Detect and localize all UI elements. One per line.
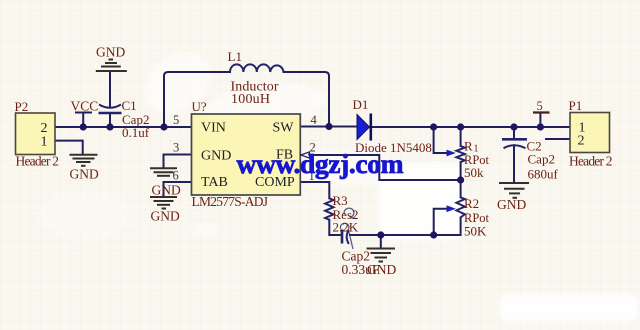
svg-text:1: 1 [41,134,48,149]
svg-text:680uf: 680uf [528,167,559,182]
capacitor C2 [502,139,527,148]
svg-text:P2: P2 [15,99,29,114]
wire P1 pin2 stub [546,138,570,140]
node junction VCC rail [80,123,87,130]
svg-text:L1: L1 [228,49,242,64]
inductor L1 [230,64,284,72]
FB input arrow [301,152,310,158]
wire R1 top stem [460,127,462,146]
svg-text:GND: GND [201,149,231,164]
ground (C2) [499,183,529,198]
svg-text:GND: GND [152,183,181,198]
connector P2 [16,113,56,155]
svg-text:GND: GND [497,197,526,212]
svg-text:Header 2: Header 2 [569,154,613,169]
svg-text:4: 4 [311,113,318,127]
svg-text:GND: GND [70,167,99,182]
wire C2 stem [513,127,515,138]
wire diode cathode to P1 pin1 [371,126,570,128]
wire R1 wiper [434,127,446,153]
wire SW pin to diode [300,126,356,128]
wire R3 bottom to cap 0.33 [329,220,341,235]
capacitor C1 [99,105,122,114]
svg-text:TAB: TAB [201,175,228,190]
svg-text:LM2577S-ADJ: LM2577S-ADJ [192,194,269,209]
capacitor Cap2 0.33uF (series) [342,230,349,245]
svg-text:Cap2: Cap2 [528,152,555,167]
wire COMP to R3 [300,182,329,198]
wire C1 bottom stem [109,114,111,127]
node junction R2 wiper tap [430,231,437,238]
ground (U pin3) [150,168,177,176]
wire inductor to SW riser [284,72,330,127]
svg-text:50k: 50k [464,165,484,180]
svg-text:R2: R2 [464,196,479,211]
wire VIN riser to inductor [164,72,230,127]
svg-text:VIN: VIN [201,121,226,136]
svg-text:0.1uf: 0.1uf [122,125,150,140]
svg-text:R3: R3 [333,193,348,208]
node junction R1 top [457,123,464,130]
node junction pin5 stub [537,123,544,130]
svg-text:50K: 50K [464,224,487,239]
node junction 0.33uF ground tap [377,231,384,238]
svg-text:Header 2: Header 2 [16,154,60,169]
svg-text:3: 3 [173,141,179,155]
ground (P2 pin1) [70,155,98,166]
svg-text:C1: C1 [122,98,137,113]
white erased-watermark patches [37,40,638,321]
svg-text:2: 2 [578,133,585,148]
node junction SW riser [325,123,332,130]
R2 wiper arrow [447,205,456,212]
svg-text:SW: SW [273,121,295,136]
svg-text:R: R [464,139,473,154]
connector P1 [570,113,610,153]
svg-text:GND: GND [151,209,180,224]
diode D1 [357,114,371,141]
pin5 marker bar at P1 [533,111,550,113]
svg-text:U?: U? [192,99,207,114]
svg-text:VCC: VCC [71,99,99,114]
wire main input rail [55,126,192,128]
overlap scribble near Res2 [340,208,356,249]
wire GND pin3 stub [164,155,192,168]
wire 0.33 gnd stem [380,235,382,248]
svg-text:6: 6 [173,169,179,183]
svg-text:5: 5 [173,113,179,127]
wire FB net [309,155,461,180]
svg-text:2.2K: 2.2K [333,220,359,235]
node junction R1 wiper tap [430,123,437,130]
wire cap 0.33 to R2 bottom [350,218,461,236]
ground (U pin6 TAB) [150,197,177,209]
wire R2 wiper [434,209,446,235]
node junction VIN riser [160,123,167,130]
resistor R2 (zigzag) [456,197,464,217]
node junction C2 tap [510,123,517,130]
resistor R3 (zigzag) [325,198,333,219]
svg-text:GND: GND [367,262,396,277]
ground (top inverted, above C1) [96,60,127,72]
wire VCC stem [76,113,91,128]
svg-text:5: 5 [537,99,543,113]
svg-text:D1: D1 [353,97,369,112]
IC U? LM2577S-ADJ body [192,114,301,195]
wire C2 lower stem [513,145,515,181]
wire R1 bottom stem to FB junction [460,162,462,197]
svg-text:GND: GND [96,45,125,60]
wire C1 top stem [109,72,111,108]
wire pin5 marker stem [539,113,541,128]
svg-text:100uH: 100uH [231,92,270,107]
ground (cap 0.33) [367,249,396,262]
node junction C1 rail [106,123,113,130]
R1 wiper arrow [447,150,456,157]
svg-text:www.dgzj.com: www.dgzj.com [237,148,404,179]
svg-text:P1: P1 [569,98,583,113]
node junction FB divider midpoint [457,176,464,183]
resistor R1 (zigzag) [456,146,464,162]
wire TAB pin6 stub [164,182,192,196]
wire P2 pin1 to ground [55,141,83,154]
